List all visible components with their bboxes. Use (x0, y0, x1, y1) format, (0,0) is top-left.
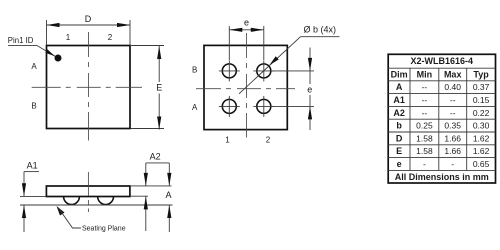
side view bump 1 (64, 197, 80, 205)
svg-text:0.37: 0.37 (473, 82, 490, 92)
svg-text:Ø b (4x): Ø b (4x) (304, 25, 337, 35)
body bottom extension line right (130, 195, 148, 197)
svg-text:e: e (307, 84, 312, 94)
dimension E line (158, 46, 160, 82)
dimension D line (47, 24, 131, 26)
svg-text:A1: A1 (393, 95, 405, 105)
svg-text:0.22: 0.22 (473, 108, 490, 118)
svg-text:b: b (396, 121, 402, 131)
svg-text:--: -- (422, 108, 428, 118)
svg-text:D: D (396, 133, 403, 143)
dimension e right extension lines (271, 70, 315, 72)
dimension E extension lines (130, 45, 164, 47)
svg-text:e: e (244, 18, 249, 28)
bottom view vertical centerline (246, 33, 248, 138)
top view vertical centerline (88, 32, 90, 141)
svg-text:A: A (192, 103, 198, 112)
seating plane leader line (59, 208, 82, 228)
svg-text:0.35: 0.35 (444, 121, 461, 131)
svg-text:2: 2 (266, 136, 271, 145)
dimension A arrowheads (167, 173, 171, 186)
ball diameter leader line (239, 37, 301, 94)
dimension e right arrowheads (308, 58, 312, 71)
dimension A line (168, 163, 170, 186)
svg-text:0.15: 0.15 (473, 95, 490, 105)
svg-text:B: B (31, 101, 36, 110)
svg-text:1.58: 1.58 (416, 146, 433, 156)
svg-text:--: -- (422, 95, 428, 105)
ball A1 crosshair (219, 105, 240, 107)
svg-text:Seating Plane: Seating Plane (82, 226, 126, 233)
dimension A1 arrowheads (22, 183, 26, 196)
svg-text:1.58: 1.58 (416, 133, 433, 143)
ball A2 crosshair (253, 105, 274, 107)
dimension e top line (229, 29, 263, 31)
side view vertical centerline (87, 172, 89, 212)
dimension D arrowheads (47, 23, 60, 27)
svg-text:--: -- (450, 95, 456, 105)
svg-text:B: B (192, 66, 197, 75)
dimension e right line (309, 48, 311, 71)
svg-text:E: E (396, 146, 402, 156)
side view package body (46, 186, 129, 197)
svg-text:0.40: 0.40 (444, 82, 461, 92)
svg-text:1.62: 1.62 (473, 133, 490, 143)
dimension A2 arrowheads (144, 173, 148, 186)
svg-text:Typ: Typ (473, 70, 489, 80)
side view bump 2 (98, 197, 114, 205)
svg-text:Max: Max (444, 70, 462, 80)
table row dividers (388, 93, 495, 95)
svg-text:1.66: 1.66 (444, 133, 461, 143)
dimension E arrowheads (157, 46, 161, 59)
dimension e top arrowheads (229, 28, 242, 32)
top view horizontal centerline (32, 86, 142, 88)
table title row divider (388, 67, 495, 69)
top view package outline (47, 46, 131, 129)
pin1 ID leader line (8, 45, 55, 56)
table header row divider (388, 80, 495, 82)
dimension A1 line (23, 172, 25, 197)
svg-text:Dim: Dim (391, 70, 408, 80)
svg-text:--: -- (422, 82, 428, 92)
svg-text:Min: Min (417, 70, 433, 80)
svg-text:A1: A1 (27, 160, 38, 170)
dimension A1 label bar (24, 171, 39, 173)
ball B2 crosshair (253, 70, 274, 72)
ball A2 (257, 99, 271, 113)
ball B1 crosshair (219, 70, 240, 72)
body top extension line right (130, 185, 172, 187)
svg-text:--: -- (450, 108, 456, 118)
svg-text:Pin1 ID: Pin1 ID (8, 36, 34, 45)
ball B1 (222, 64, 236, 78)
svg-text:A2: A2 (393, 108, 405, 118)
pin1 ID ball marker (55, 55, 62, 62)
dimension e top extension lines (228, 26, 230, 60)
dimension table outer border (388, 54, 495, 183)
bottom view horizontal centerline (196, 88, 295, 90)
svg-text:1.66: 1.66 (444, 146, 461, 156)
svg-text:-: - (423, 159, 426, 169)
svg-text:E: E (156, 83, 162, 93)
seating plane line (20, 204, 173, 206)
dimension A2 label connector bar (146, 162, 170, 164)
table column dividers (409, 68, 411, 170)
svg-text:1: 1 (225, 136, 230, 145)
dimension D extension lines (46, 20, 48, 45)
svg-text:A: A (396, 82, 403, 92)
svg-text:D: D (85, 14, 92, 24)
ball diameter leader arrowhead (270, 56, 279, 65)
svg-text:X2-WLB1616-4: X2-WLB1616-4 (411, 56, 474, 66)
ball diameter leader underline (301, 36, 340, 38)
svg-text:1: 1 (66, 33, 71, 42)
ball A1 (222, 99, 236, 113)
svg-text:1.62: 1.62 (473, 146, 490, 156)
svg-text:A2: A2 (150, 152, 161, 162)
ball B2 (257, 64, 271, 78)
svg-text:A: A (166, 190, 172, 200)
body bottom extension line left (20, 195, 46, 197)
svg-text:0.30: 0.30 (473, 121, 490, 131)
svg-text:2: 2 (108, 33, 113, 42)
seating plane leader arrowhead (57, 206, 65, 216)
dimension A2 line (145, 163, 147, 186)
svg-text:0.65: 0.65 (473, 159, 490, 169)
svg-text:-: - (451, 159, 454, 169)
svg-text:All Dimensions in mm: All Dimensions in mm (395, 172, 489, 182)
svg-text:A: A (31, 62, 37, 71)
bottom view package outline (204, 45, 287, 129)
svg-text:0.25: 0.25 (416, 121, 433, 131)
pin1 ID leader arrowhead (45, 49, 55, 56)
svg-text:e: e (397, 159, 402, 169)
